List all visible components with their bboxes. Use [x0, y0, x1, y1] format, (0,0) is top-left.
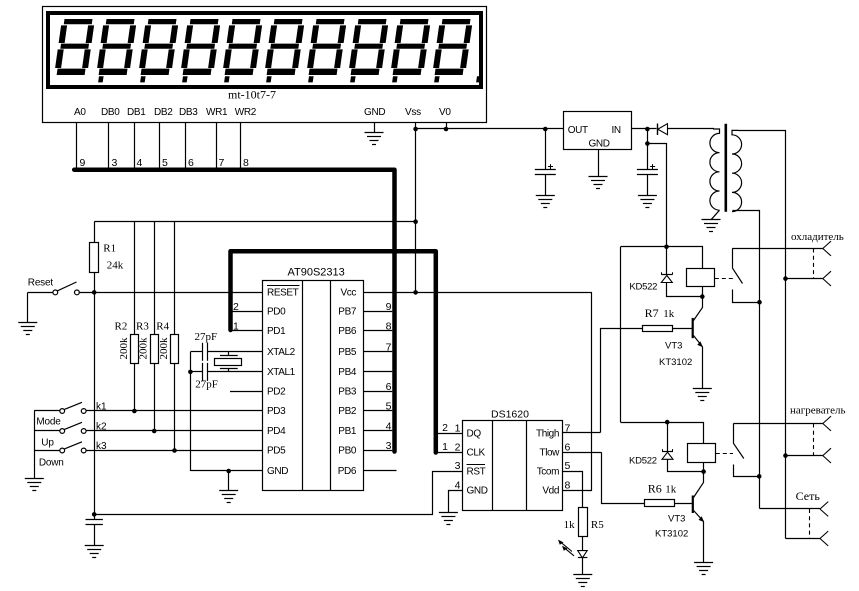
svg-text:3: 3: [386, 440, 392, 452]
decimal point 5: [266, 76, 272, 82]
ground VT3 upper: [693, 389, 712, 401]
svg-text:5: 5: [162, 157, 168, 169]
transistor VT3 upper KT3102: [692, 318, 694, 338]
svg-text:AT90S2313: AT90S2313: [288, 267, 345, 279]
transformer T1 primary: [710, 129, 720, 210]
svg-text:4: 4: [386, 421, 392, 433]
ground display: [365, 133, 384, 145]
node relay1 coil bottom: [700, 294, 705, 299]
svg-text:V0: V0: [439, 107, 451, 118]
display digit 1 (8): [54, 19, 95, 75]
wire +5V rail to R1: [94, 221, 415, 223]
wire Vdd: [563, 293, 592, 491]
display digit 8 (8): [348, 19, 389, 75]
svg-text:PB2: PB2: [338, 406, 357, 417]
svg-text:1: 1: [233, 321, 239, 333]
IC U1 AT90S2313: [263, 281, 364, 491]
relay K1 contact: [732, 249, 734, 268]
relay K2 contact: [733, 424, 735, 444]
svg-text:GND: GND: [467, 486, 488, 497]
svg-text:9: 9: [80, 157, 86, 169]
wire IN: [631, 128, 656, 130]
transformer T1 secondary: [732, 130, 742, 211]
wire +5V vertical: [415, 129, 417, 292]
svg-text:A0: A0: [74, 107, 86, 118]
resistor R4: [174, 222, 176, 335]
regulator GND pin: [598, 150, 600, 177]
svg-text:8: 8: [386, 321, 392, 333]
svg-text:2: 2: [442, 422, 448, 434]
svg-text:Down: Down: [39, 458, 64, 469]
ground MCU: [219, 491, 238, 503]
ground DS1620: [439, 513, 458, 525]
switch k1: [34, 410, 60, 412]
transformer T1 core: [725, 124, 728, 212]
svg-text:XTAL2: XTAL2: [267, 347, 296, 358]
wire secondary bottom to V3: [733, 211, 760, 509]
svg-text:PB6: PB6: [338, 326, 357, 337]
display digit 2 (8): [96, 19, 137, 75]
decimal point 6: [308, 76, 314, 82]
svg-text:R3: R3: [136, 321, 149, 333]
node MCU GND: [226, 469, 231, 474]
svg-text:CLK: CLK: [467, 448, 486, 459]
svg-text:Up: Up: [41, 438, 54, 449]
wire CLK to bus B: [438, 452, 463, 454]
wire relay supply rail 2: [621, 423, 704, 444]
wire relay supply rail 1: [621, 247, 703, 269]
svg-text:PB0: PB0: [338, 446, 357, 457]
transistor VT3 lower KT3102: [692, 496, 694, 514]
svg-text:PD0: PD0: [267, 307, 286, 318]
svg-text:6: 6: [188, 157, 194, 169]
wire reset to ground: [27, 292, 29, 322]
wire Thigh vertical: [601, 329, 643, 433]
svg-text:9: 9: [386, 301, 392, 313]
svg-text:DQ: DQ: [467, 429, 482, 440]
wire DS GND: [449, 491, 463, 513]
decimal point 3: [182, 76, 188, 82]
wire crystal caps common: [190, 352, 192, 471]
node R4 bottom: [172, 448, 177, 453]
svg-text:5: 5: [386, 401, 392, 413]
svg-text:R1: R1: [103, 243, 116, 255]
connector cooler bottom prong: [786, 278, 823, 280]
wire PB4 to bus A: [364, 371, 393, 373]
decimal point 4: [224, 76, 230, 82]
bus A display data: [74, 170, 394, 452]
svg-text:R7: R7: [645, 306, 659, 320]
svg-text:5: 5: [565, 460, 571, 472]
wire PB6 to bus A: [364, 330, 393, 332]
svg-text:R2: R2: [115, 321, 128, 333]
diode VD1 KD522: [666, 247, 668, 275]
resistor R6 1k: [645, 500, 675, 507]
svg-text:GND: GND: [267, 466, 288, 477]
wire contact to cooler: [732, 248, 823, 250]
svg-text:WR2: WR2: [235, 107, 257, 118]
node reset rail: [92, 512, 97, 517]
wire PD1 to bus B: [233, 330, 263, 332]
svg-text:PD1: PD1: [267, 326, 286, 337]
ground regulator: [589, 177, 608, 189]
svg-text:1k: 1k: [564, 519, 576, 531]
svg-text:2: 2: [233, 301, 239, 313]
ground reset capacitor: [85, 546, 104, 558]
svg-text:VT3: VT3: [665, 341, 682, 352]
svg-text:4: 4: [455, 480, 461, 492]
svg-text:Vdd: Vdd: [542, 486, 559, 497]
diode VD2 KD522: [667, 422, 669, 452]
svg-text:OUT: OUT: [568, 125, 588, 136]
ground transformer: [702, 220, 721, 232]
svg-text:3: 3: [112, 157, 118, 169]
wire PB2 to bus A: [364, 410, 393, 412]
svg-text:1k: 1k: [665, 484, 677, 496]
node C4 tap: [645, 141, 650, 146]
svg-text:Mode: Mode: [36, 417, 61, 428]
node relay2 coil bottom: [701, 469, 706, 474]
display digit 5 (8): [222, 19, 263, 75]
LED HL1: [582, 537, 584, 551]
svg-text:GND: GND: [364, 107, 385, 118]
node cooler V2: [783, 276, 788, 281]
wire MCU GND: [190, 470, 228, 472]
capacitor C1 27pF: [190, 351, 202, 353]
diode VD rectifier: [657, 124, 659, 136]
svg-text:RST: RST: [467, 466, 486, 477]
svg-text:KT3102: KT3102: [659, 357, 692, 368]
svg-text:mt-10t7-7: mt-10t7-7: [228, 88, 276, 102]
display pin wire 8: [240, 122, 242, 168]
display pin wire 9: [76, 122, 78, 168]
svg-text:1: 1: [442, 441, 448, 453]
svg-text:1: 1: [455, 423, 461, 435]
decimal point 1: [98, 76, 104, 82]
svg-text:IN: IN: [612, 125, 621, 136]
display digit 10 (8): [432, 19, 473, 75]
ground C4: [638, 196, 657, 208]
svg-text:R5: R5: [591, 519, 604, 531]
svg-text:24k: 24k: [107, 260, 124, 272]
display digit 3 (8): [138, 19, 179, 75]
svg-text:Tlow: Tlow: [539, 448, 560, 459]
wire PD6 stub: [364, 470, 397, 472]
svg-text:PD4: PD4: [267, 426, 286, 437]
resistor R7 1k: [643, 326, 673, 332]
display Vss pin wire: [415, 122, 417, 129]
LED arrows: [560, 541, 573, 551]
connector heater top prong: [823, 416, 831, 423]
node reset/R1: [92, 290, 97, 295]
wire PB5 to bus A: [364, 351, 393, 353]
display pin wire 5: [159, 122, 161, 168]
switch k2: [34, 430, 60, 432]
node R3 bottom: [152, 429, 157, 434]
wire PB3 to bus A: [364, 391, 393, 393]
relay K1 actuation dash: [715, 278, 735, 280]
svg-text:k1: k1: [96, 402, 107, 413]
node relay1 +12V: [664, 245, 669, 250]
svg-text:PB5: PB5: [338, 347, 357, 358]
node heater V2: [783, 453, 788, 458]
relay K2 coil: [688, 444, 716, 463]
capacitor C3 electrolytic: [543, 127, 548, 132]
display digit 7 (8): [306, 19, 347, 75]
connector cooler top prong: [823, 241, 831, 248]
wire PD2 stub: [230, 391, 263, 393]
svg-text:DB3: DB3: [179, 107, 198, 118]
connector heater bottom prong: [786, 455, 823, 457]
ground C3: [536, 196, 555, 208]
resistor R3: [154, 222, 156, 335]
ground LED: [573, 575, 592, 587]
wire +5V from regulator OUT: [416, 128, 563, 130]
wire PB0 to bus A: [364, 450, 393, 452]
svg-text:8: 8: [243, 157, 249, 169]
svg-text:Vcc: Vcc: [341, 288, 357, 299]
display digit 4 (8): [180, 19, 221, 75]
svg-text:27pF: 27pF: [195, 331, 218, 343]
wire relay rail vertical: [620, 247, 622, 422]
voltage regulator U3: [564, 112, 632, 150]
svg-text:PB4: PB4: [338, 367, 357, 378]
svg-text:PB3: PB3: [338, 387, 357, 398]
svg-text:Сеть: Сеть: [796, 489, 821, 503]
svg-text:R6: R6: [648, 482, 662, 496]
svg-text:PB1: PB1: [338, 426, 357, 437]
svg-text:PD6: PD6: [338, 466, 357, 477]
svg-text:4: 4: [137, 157, 143, 169]
decimal point 10: [476, 76, 482, 82]
connector mains dashes: [809, 509, 811, 539]
svg-text:GND: GND: [589, 139, 610, 150]
svg-text:7: 7: [219, 157, 225, 169]
wire reset column: [94, 292, 96, 514]
svg-text:6: 6: [565, 441, 571, 453]
svg-text:k2: k2: [96, 422, 107, 433]
svg-text:охладитель: охладитель: [791, 231, 844, 243]
svg-text:Thigh: Thigh: [536, 429, 559, 440]
wire switch common: [34, 411, 36, 479]
svg-text:KT3102: KT3102: [655, 529, 688, 540]
decimal point 9: [434, 76, 440, 82]
node IN: [645, 127, 650, 132]
node cap common: [188, 370, 193, 375]
node relay2 +12V: [665, 420, 670, 425]
display GND pin wire: [374, 122, 376, 132]
resistor R1: [94, 222, 96, 242]
node V0: [444, 127, 449, 132]
node +5V rail: [413, 219, 418, 224]
wire DQ to bus B: [438, 433, 463, 435]
wire secondary top to V2: [739, 131, 786, 539]
display V0 pin wire: [446, 122, 448, 129]
svg-text:7: 7: [386, 341, 392, 353]
connector heater dashes: [813, 424, 815, 456]
svg-text:27pF: 27pF: [195, 379, 218, 391]
bus B serial to DS1620: [231, 251, 436, 452]
svg-text:нагреватель: нагреватель: [790, 405, 846, 417]
ground reset: [18, 323, 37, 335]
connector mains top prong: [760, 508, 821, 510]
svg-text:k3: k3: [96, 441, 107, 452]
svg-text:2: 2: [455, 441, 461, 453]
svg-text:6: 6: [386, 381, 392, 393]
display digit 9 (8): [390, 19, 431, 75]
wire Tlow vertical: [602, 453, 645, 504]
capacitor C2 27pF: [190, 371, 202, 373]
display digit 6 (8): [264, 19, 305, 75]
node Vcc: [413, 290, 418, 295]
wire RST to reset rail: [95, 472, 463, 515]
svg-text:DB1: DB1: [127, 107, 146, 118]
svg-text:3: 3: [455, 460, 461, 472]
svg-text:DB2: DB2: [154, 107, 173, 118]
connector cooler dashes: [813, 249, 815, 279]
svg-text:200k: 200k: [158, 337, 170, 360]
svg-text:PD2: PD2: [267, 387, 286, 398]
IC U2 DS1620: [463, 421, 563, 511]
svg-text:KD522: KD522: [629, 456, 657, 467]
node R2 bottom: [132, 409, 137, 414]
LCD module mt-10t7-7 outer box: [43, 7, 487, 123]
wire PB1 to bus A: [364, 430, 393, 432]
display pin wire 6: [185, 122, 187, 168]
svg-text:DS1620: DS1620: [491, 409, 529, 421]
display pin wire 7: [216, 122, 218, 168]
svg-text:200k: 200k: [138, 337, 150, 360]
switch k3: [34, 450, 60, 452]
capacitor reset: [94, 514, 96, 519]
capacitor C4 electrolytic: [647, 129, 649, 170]
svg-text:DB0: DB0: [101, 107, 120, 118]
wire PB7 to bus A: [364, 311, 393, 313]
connector mains bottom prong: [786, 538, 821, 540]
svg-text:XTAL1: XTAL1: [267, 367, 296, 378]
crystal ZQ1: [228, 352, 230, 356]
svg-text:VT3: VT3: [668, 514, 685, 525]
relay K1 coil: [687, 269, 715, 287]
display pin wire 4: [134, 122, 136, 168]
decimal point 8: [392, 76, 398, 82]
svg-text:PD3: PD3: [267, 406, 286, 417]
wire Tlow: [563, 452, 602, 454]
node Vss: [413, 127, 418, 132]
resistor R2: [134, 222, 136, 335]
wire +12V to relays: [648, 144, 667, 247]
node contact to V3: [757, 300, 762, 305]
wire Tcom: [563, 472, 583, 508]
ground switches: [25, 479, 44, 491]
decimal point 2: [140, 76, 146, 82]
svg-text:WR1: WR1: [206, 107, 228, 118]
ground VT3 lower: [694, 563, 713, 575]
svg-text:R4: R4: [156, 321, 169, 333]
svg-text:Tcom: Tcom: [537, 466, 559, 477]
display pin wire 3: [108, 122, 110, 168]
wire contact to heater: [733, 423, 822, 425]
resistor R5: [579, 508, 588, 537]
wire PD0 to bus B: [233, 311, 263, 313]
wire Vcc rail: [364, 292, 592, 294]
svg-text:KD522: KD522: [629, 281, 657, 292]
svg-text:200k: 200k: [118, 337, 130, 360]
svg-text:PD5: PD5: [267, 446, 286, 457]
decimal point 7: [350, 76, 356, 82]
svg-text:RESET: RESET: [267, 288, 299, 299]
wire Thigh: [563, 432, 601, 434]
LCD display frame: [48, 13, 481, 87]
svg-text:Vss: Vss: [405, 107, 421, 118]
node contact2 to V3: [757, 474, 762, 479]
svg-text:1k: 1k: [663, 308, 675, 320]
relay K2 actuation dash: [716, 453, 733, 455]
svg-text:PB7: PB7: [338, 307, 357, 318]
svg-text:Reset: Reset: [28, 278, 54, 289]
svg-text:8: 8: [565, 480, 571, 492]
